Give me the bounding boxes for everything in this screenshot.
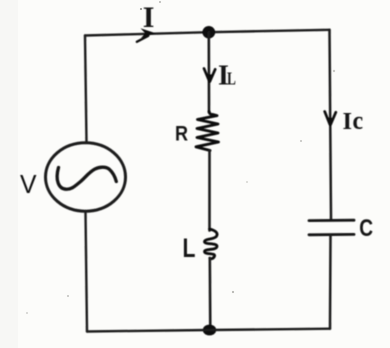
svg-text:L: L [183, 234, 196, 264]
svg-text:c: c [352, 107, 363, 135]
svg-text:I: I [343, 108, 353, 135]
current arrow I [137, 28, 156, 42]
scan page edge [0, 0, 18, 348]
junction node bottom [203, 325, 216, 336]
capacitor C plate bottom [309, 233, 354, 236]
svg-text:C: C [359, 214, 373, 242]
scan speckles [26, 1, 335, 314]
wire bottom right segment [210, 329, 331, 330]
svg-text:I: I [143, 1, 155, 34]
wire middle between R and L [208, 151, 211, 231]
wire bottom left segment [87, 330, 210, 332]
svg-text:V: V [20, 171, 37, 199]
wire top-left segment [85, 32, 209, 35]
svg-text:L: L [227, 70, 236, 89]
inductor L [204, 229, 217, 259]
current arrow IL [204, 69, 215, 83]
current arrow Ic [325, 112, 336, 126]
svg-text:R: R [175, 122, 188, 146]
wire middle upper [208, 32, 211, 112]
wire right vertical lower [329, 235, 332, 329]
wire left vertical upper [85, 36, 87, 143]
wire middle lower [209, 258, 212, 330]
wire right vertical upper [330, 30, 332, 220]
wire top-right segment [209, 30, 330, 32]
junction node top [202, 26, 215, 38]
wire left vertical lower [86, 213, 88, 332]
resistor R [196, 112, 219, 151]
source V U1 [46, 143, 126, 211]
capacitor C plate top [309, 219, 354, 222]
